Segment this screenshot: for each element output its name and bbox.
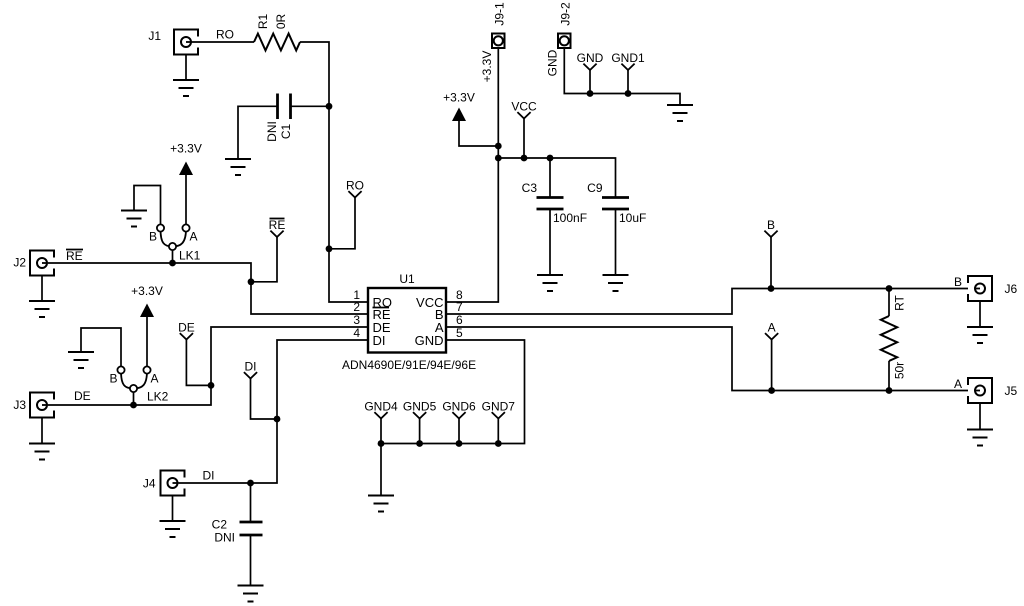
connector J5: [968, 378, 1018, 403]
ground below J1: [173, 80, 199, 96]
svg-text:A: A: [190, 229, 198, 243]
wire GND1 flag down: [627, 70, 629, 94]
svg-text:J5: J5: [1005, 384, 1018, 398]
svg-text:GND6: GND6: [442, 400, 476, 414]
power flag +3.3V (VCC): [443, 91, 475, 122]
wire LK2 common stub: [133, 392, 135, 405]
wire LK1 B to ground: [134, 186, 161, 225]
svg-text:3: 3: [353, 313, 360, 327]
U1 pin 2 (RE): [353, 300, 391, 322]
junction C2 tap: [247, 480, 254, 487]
wire B flag down: [770, 237, 772, 289]
wire RT top: [888, 289, 890, 317]
svg-text:J1: J1: [148, 29, 161, 43]
testpoint J9-2: [558, 34, 571, 49]
svg-text:DE: DE: [178, 321, 195, 335]
ground below C3: [537, 275, 563, 291]
wire U1 pin 5 to GND bus: [381, 340, 525, 496]
junction VCC flag: [521, 155, 528, 162]
testpoint J9-1: [492, 34, 505, 49]
junction rail at J9-1 wire: [495, 155, 502, 162]
wire J9-2 to ground: [564, 48, 680, 105]
svg-text:GND1: GND1: [611, 51, 645, 65]
svg-text:DE: DE: [74, 389, 91, 403]
U1 pin 4 (DI): [353, 326, 385, 348]
junction LK1 on RE wire: [169, 260, 176, 267]
svg-text:RO: RO: [216, 28, 234, 42]
connector J6: [968, 276, 1018, 301]
wire J4 ground stub: [172, 496, 174, 522]
svg-text:+3.3V: +3.3V: [131, 284, 163, 298]
svg-text:RE: RE: [66, 249, 83, 263]
svg-text:B: B: [767, 218, 775, 232]
svg-text:+3.3V: +3.3V: [170, 142, 202, 156]
wire LK1 common stub: [172, 250, 174, 263]
svg-text:5: 5: [456, 326, 463, 340]
wire C2 top: [250, 483, 252, 522]
svg-text:A: A: [151, 372, 159, 386]
net flag GND: [577, 51, 604, 70]
IC U1 ADN4690E body: [368, 288, 446, 353]
U1 pin 7 (B): [435, 300, 463, 322]
junction RT bottom: [886, 387, 893, 394]
ground below C1: [225, 159, 251, 175]
svg-text:RT: RT: [893, 294, 907, 310]
connector J2: [13, 251, 54, 276]
wire GND4 flag down: [380, 419, 382, 444]
wire J6 ground stub: [979, 301, 981, 327]
wire C2 bottom to ground: [250, 535, 252, 586]
wire J3 to corner to U1 pin 3: [48, 327, 368, 405]
svg-text:DNI: DNI: [265, 121, 279, 142]
ground below C2: [238, 586, 264, 602]
svg-text:B: B: [109, 372, 117, 386]
svg-text:LK1: LK1: [179, 249, 201, 263]
ground below J2: [29, 301, 55, 317]
svg-text:0R: 0R: [274, 13, 288, 29]
wire A flag down: [771, 340, 773, 391]
resistor RT: [881, 316, 897, 361]
net flag GND7: [482, 400, 516, 419]
net label RE at J2: [66, 249, 83, 263]
net flag B: [764, 218, 777, 237]
U1 pin 5 (GND): [415, 326, 463, 348]
junction GND4: [378, 440, 385, 447]
ground GND bus: [368, 496, 394, 512]
svg-text:6: 6: [456, 313, 463, 327]
U1 pin 6 (A): [435, 313, 463, 335]
svg-text:+3.3V: +3.3V: [443, 91, 475, 105]
wire VCC rail to C9: [498, 158, 615, 198]
svg-text:J4: J4: [143, 477, 156, 491]
junction GND1 flag: [625, 90, 632, 97]
svg-text:A: A: [768, 321, 776, 335]
ground LK2 B: [68, 352, 94, 368]
svg-text:J3: J3: [13, 398, 26, 412]
net flag DE: [178, 321, 195, 340]
svg-text:RE: RE: [269, 218, 286, 232]
junction C1/trunk: [326, 103, 333, 110]
junction A flag: [768, 387, 775, 394]
svg-text:C2: C2: [212, 518, 228, 532]
capacitor C1: [278, 94, 291, 120]
ground J9-2 net: [667, 105, 693, 121]
ground below J4: [160, 521, 186, 537]
wire J5 ground stub: [979, 403, 981, 430]
wire RE flag to RE net: [251, 237, 277, 282]
svg-text:B: B: [149, 229, 157, 243]
svg-text:GND: GND: [577, 51, 604, 65]
capacitor C9: [602, 198, 629, 210]
svg-text:LK2: LK2: [147, 390, 169, 404]
ground below J3: [29, 444, 55, 460]
wire J2 ground stub: [41, 276, 43, 302]
svg-text:+3.3V: +3.3V: [480, 51, 494, 83]
wire C1 left plate to ground: [238, 106, 278, 159]
junction C3 tap: [547, 155, 554, 162]
junction B flag: [768, 285, 775, 292]
junction RE flag: [248, 278, 255, 285]
wire DE flag to DE net: [186, 340, 211, 386]
junction LK2 on DE wire: [130, 402, 137, 409]
power flag +3.3V (LK2): [131, 284, 163, 317]
net flag RE: [269, 218, 286, 237]
wire GND5 flag down: [419, 419, 421, 444]
net flag GND4: [364, 400, 398, 419]
wire +3.3V arrow to rail: [459, 121, 498, 146]
wire J9-1 down to U1 pin 8: [446, 48, 498, 302]
wire GND7 flag down: [497, 419, 499, 444]
svg-text:B: B: [954, 275, 962, 289]
connector J4: [143, 471, 185, 496]
svg-text:ADN4690E/91E/94E/96E: ADN4690E/91E/94E/96E: [342, 358, 476, 372]
junction GND5: [416, 440, 423, 447]
svg-text:GND4: GND4: [364, 400, 398, 414]
wire RT bottom: [888, 361, 890, 391]
resistor R1: [254, 34, 300, 51]
svg-text:50r: 50r: [893, 362, 907, 379]
svg-text:J9-1: J9-1: [493, 2, 507, 26]
svg-text:U1: U1: [399, 272, 415, 286]
wire J1 to R1: [191, 41, 254, 43]
net flag GND5: [403, 400, 437, 419]
net flag GND6: [442, 400, 476, 419]
U1 pin 8 (VCC): [416, 288, 463, 310]
wire GND flag down: [589, 70, 591, 94]
connector J1: [148, 29, 198, 55]
junction DI flag: [274, 416, 281, 423]
U1 pin 1 (RO): [353, 288, 392, 310]
svg-text:J9-2: J9-2: [559, 2, 573, 26]
wire J1 ground stub: [185, 54, 187, 80]
wire U1 pin 6 A net to J5: [446, 327, 968, 391]
wire C3 top: [549, 158, 551, 198]
svg-text:DNI: DNI: [214, 531, 235, 545]
wire R1 to trunk, down to U1 pin 1: [300, 42, 368, 302]
svg-text:GND: GND: [415, 333, 444, 348]
svg-text:100nF: 100nF: [553, 211, 587, 225]
svg-text:VCC: VCC: [511, 100, 537, 114]
svg-text:GND7: GND7: [482, 400, 516, 414]
svg-text:2: 2: [353, 300, 360, 314]
wire +3.3V to LK2 pin A: [146, 317, 148, 366]
connector J3: [13, 393, 54, 418]
svg-text:DI: DI: [203, 469, 215, 483]
wire GND6 flag down: [458, 419, 460, 444]
capacitor C2: [240, 522, 263, 535]
svg-text:GND5: GND5: [403, 400, 437, 414]
junction RO flag/trunk: [326, 245, 333, 252]
net flag A: [765, 321, 778, 340]
jumper LK1: [149, 224, 201, 262]
U1 pin 3 (DE): [353, 313, 391, 335]
power flag +3.3V (LK1): [170, 142, 202, 176]
net flag DI: [244, 360, 257, 379]
wire LK2 B to ground: [81, 328, 121, 366]
ground LK1 B: [121, 211, 147, 227]
svg-text:DI: DI: [245, 360, 257, 374]
svg-text:DI: DI: [373, 333, 386, 348]
svg-text:GND: GND: [546, 49, 560, 76]
net flag VCC: [511, 100, 537, 119]
svg-text:J2: J2: [13, 256, 26, 270]
net flag RO: [346, 179, 364, 198]
ground below J5: [967, 430, 993, 446]
svg-text:4: 4: [353, 326, 360, 340]
wire C1 right plate to trunk: [291, 105, 330, 107]
wire DI flag to DI net: [251, 379, 278, 420]
wire C3 bottom to ground: [549, 209, 551, 275]
junction GND flag: [587, 90, 594, 97]
junction DE flag: [208, 382, 215, 389]
svg-text:J6: J6: [1005, 282, 1018, 296]
wire J4 to corner to U1 pin 4: [179, 340, 369, 483]
svg-text:C3: C3: [522, 181, 538, 195]
wire VCC flag down: [523, 119, 525, 159]
svg-text:R1: R1: [256, 14, 270, 30]
junction RT top: [886, 285, 893, 292]
wire J3 ground stub: [41, 418, 43, 444]
junction GND6: [456, 440, 463, 447]
wire C9 bottom to ground: [615, 209, 617, 275]
ground below J6: [967, 327, 993, 343]
svg-text:10uF: 10uF: [619, 211, 646, 225]
junction GND7: [495, 440, 502, 447]
net flag GND1: [611, 51, 645, 70]
svg-text:C1: C1: [279, 124, 293, 140]
wire RO flag to trunk: [329, 198, 355, 249]
jumper LK2: [109, 366, 168, 403]
wire J2 to corner to U1 pin 2: [48, 263, 368, 314]
svg-text:A: A: [954, 377, 962, 391]
ground below C9: [603, 275, 629, 291]
junction +3.3V/J9-1: [495, 143, 502, 150]
svg-text:RO: RO: [346, 179, 364, 193]
wire U1 pin 7 B net to J6: [446, 289, 968, 315]
capacitor C3: [537, 198, 564, 210]
wire +3.3V to LK1 pin A: [185, 175, 187, 224]
svg-text:C9: C9: [587, 181, 603, 195]
